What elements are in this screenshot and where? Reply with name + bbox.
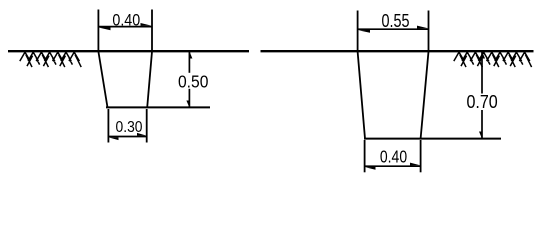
white mask behind 0.50 label	[177, 73, 210, 89]
earth hatching left of trench 1	[20, 52, 81, 67]
dim 0.55 left arrowhead	[358, 30, 370, 33]
svg-text:0.55: 0.55	[382, 11, 410, 31]
dim 0.30 dimension line	[108, 136, 146, 138]
white mask behind 0.70 label	[465, 94, 499, 111]
trench 2 left wall	[358, 52, 365, 139]
dim 0.40 (bottom right) left extension line	[364, 140, 366, 172]
dim 0.30 right extension line	[146, 109, 148, 143]
dim 0.55 left extension line	[357, 11, 359, 52]
svg-text:0.30: 0.30	[116, 119, 143, 136]
dim 0.50 vertical dimension line	[188, 51, 190, 107]
trench 2 bottom line (also 0.70 dimension bottom reference)	[364, 138, 501, 140]
dim 0.40 left arrowhead	[99, 27, 111, 30]
svg-text:0.40: 0.40	[112, 11, 140, 29]
dim 0.30 right arrowhead	[137, 133, 146, 136]
trench 1 left wall	[98, 52, 107, 108]
dim 0.70 vertical dimension line	[481, 51, 483, 139]
earth hatching right of trench 2	[454, 52, 532, 67]
dim 0.50 bottom arrowhead	[186, 101, 189, 107]
dim 0.40 (bottom right) right extension line	[420, 140, 422, 172]
trench 1 right wall	[147, 52, 152, 108]
dim 0.40 (bottom right) left arrowhead	[365, 167, 375, 170]
ground line right figure	[261, 50, 534, 52]
svg-text:0.70: 0.70	[466, 92, 497, 112]
dim 0.55 right arrowhead	[417, 26, 428, 29]
dim 0.40 left extension line	[97, 10, 99, 52]
trench 1 bottom line (also 0.50 dimension bottom reference)	[106, 106, 210, 108]
svg-text:0.50: 0.50	[178, 71, 209, 91]
dim 0.40 right arrowhead	[141, 23, 152, 26]
dim 0.30 left extension line	[107, 109, 109, 143]
dim 0.40 (bottom right) right arrowhead	[410, 163, 420, 166]
dim 0.55 right extension line	[428, 11, 430, 52]
dim 0.70 top arrowhead	[482, 52, 485, 58]
trench 2 right wall	[421, 52, 429, 139]
dim 0.40 dimension line	[98, 26, 152, 28]
dim 0.40 right extension line	[151, 10, 153, 52]
svg-text:0.40: 0.40	[380, 146, 407, 166]
ground line left figure	[8, 50, 249, 52]
dim 0.30 left arrowhead	[109, 137, 119, 140]
dim 0.70 bottom arrowhead	[479, 132, 482, 138]
dim 0.40 (bottom right) dimension line	[365, 165, 421, 167]
dim 0.50 top arrowhead	[190, 52, 193, 58]
dim 0.55 dimension line	[358, 28, 429, 30]
